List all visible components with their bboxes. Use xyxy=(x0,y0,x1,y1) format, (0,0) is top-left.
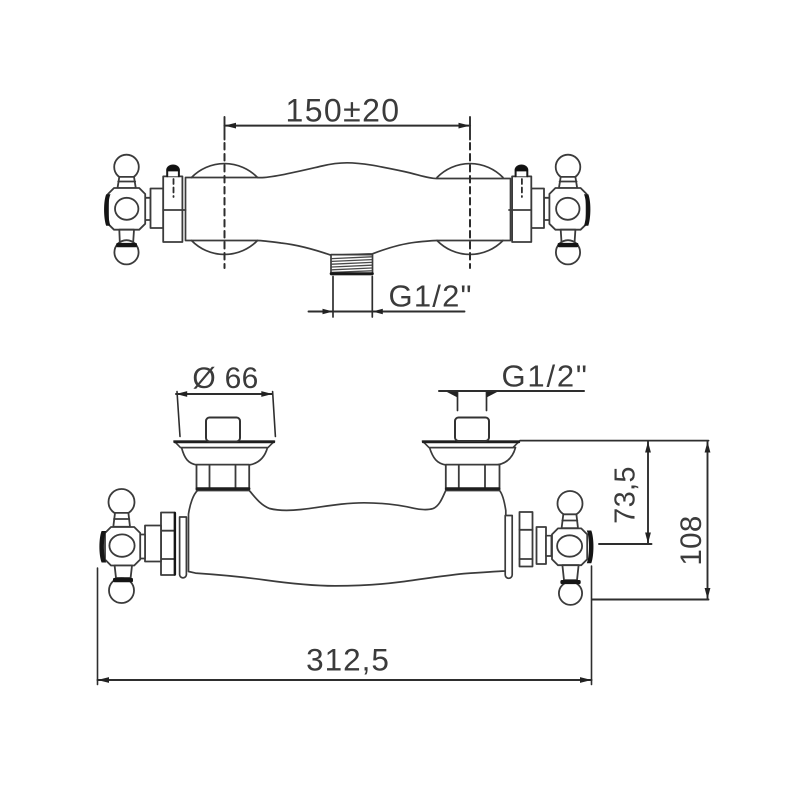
top view: left escutcheon circle (lower arc segment) xyxy=(192,241,258,255)
front view: wall plane extension line xyxy=(520,440,709,442)
top view: left escutcheon circle (upper arc segment) xyxy=(192,164,258,178)
svg-text:73,5: 73,5 xyxy=(610,466,642,524)
front view: right supply adapter nipple xyxy=(455,418,489,442)
front view: G1/2 leader line xyxy=(439,390,584,392)
front view: 108 reference leader at body bottom xyxy=(592,599,709,601)
front view: left valve collar block xyxy=(161,513,175,576)
svg-text:312,5: 312,5 xyxy=(306,642,390,678)
front view: left stem connector xyxy=(140,535,145,559)
front view: left handle lower collar band xyxy=(113,578,133,582)
top view: left cross handle xyxy=(108,155,145,265)
top view: threaded outlet G1/2 xyxy=(331,255,373,275)
front view: G1/2 extension lines with arrows xyxy=(458,391,487,411)
front view: right valve collar thin ring xyxy=(505,516,512,579)
svg-text:150±20: 150±20 xyxy=(286,92,401,128)
top view: left valve body xyxy=(145,176,186,242)
front view: right handle hub shadow xyxy=(587,531,594,564)
top view: right escutcheon circle (upper arc segment) xyxy=(437,164,503,178)
top view: right valve body xyxy=(509,176,550,242)
top view: right valve cap centerline (dashed) xyxy=(521,179,523,197)
front view: left handle hub shadow xyxy=(99,531,106,563)
top view: outlet dimension extension lines xyxy=(333,277,372,318)
front view: dimension 73,5 line with arrows xyxy=(647,442,649,544)
top view: mixer body tube xyxy=(186,163,511,255)
top view: right handle hub shadow xyxy=(584,194,590,226)
front view: left supply adapter nut xyxy=(206,418,240,442)
front view: dimension Ø66 line with arrows xyxy=(176,393,273,395)
front view: right stem connector xyxy=(546,536,551,556)
front view: mixer body xyxy=(189,491,506,586)
svg-text:G1/2": G1/2" xyxy=(502,359,589,394)
top view: left valve head screw cap xyxy=(167,165,179,176)
front view: dimension 312,5 extension lines xyxy=(98,566,592,685)
top view: left handle lower collar band xyxy=(116,243,137,247)
top view: left valve cap centerline (dashed) xyxy=(173,179,175,197)
top view: right valve head screw cap xyxy=(516,165,528,176)
top view: right escutcheon circle (lower arc segment) xyxy=(437,241,503,255)
front view: left escutcheon bell xyxy=(182,448,268,466)
front view: right escutcheon hex base xyxy=(446,465,500,490)
front view: dimension Ø66 extension lines xyxy=(177,392,275,437)
front view: right cross handle xyxy=(552,491,587,605)
front view: left escutcheon hex base xyxy=(197,465,250,490)
svg-text:108: 108 xyxy=(675,515,708,565)
svg-text:G1/2": G1/2" xyxy=(389,279,473,314)
front view: 73,5 reference leader at body axis xyxy=(599,543,652,545)
top view: left handle hub shadow xyxy=(104,194,110,226)
top view: right centerline (extension + dashed axis) xyxy=(469,117,471,140)
front view: right valve collar block xyxy=(520,512,533,567)
front view: left wall flange plate xyxy=(174,441,275,448)
front view: left bonnet rect xyxy=(145,526,161,562)
svg-text:Ø 66: Ø 66 xyxy=(192,362,258,395)
top view: G1/2 dimension line with arrows xyxy=(309,311,465,313)
top view: dimension 150±20 line with arrows xyxy=(225,125,471,127)
front view: right handle lower collar band xyxy=(560,580,580,584)
front view: left valve collar thin ring xyxy=(180,517,187,578)
front view: right wall flange plate xyxy=(423,441,520,448)
front view: dimension 108 line with arrows xyxy=(707,442,709,600)
top view: right cross handle xyxy=(549,155,586,265)
front view: right bonnet rect xyxy=(537,527,547,564)
top view: right handle lower collar band xyxy=(558,243,579,247)
front view: left cross handle xyxy=(105,489,140,603)
front view: dimension 312,5 line with arrows xyxy=(98,679,592,681)
top view: left centerline (extension + dashed axis) xyxy=(224,117,226,140)
front view: right escutcheon bell xyxy=(430,448,516,466)
